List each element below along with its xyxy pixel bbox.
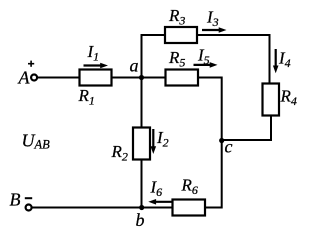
node b: [136, 205, 145, 230]
current arrow I3: [202, 8, 227, 33]
node c: [219, 137, 232, 157]
node a: [130, 56, 145, 81]
current arrow I2: [151, 128, 169, 154]
svg-text:R1: R1: [78, 86, 95, 108]
wire top rail left segment: [141, 34, 165, 36]
svg-text:c: c: [225, 137, 233, 157]
wire B to R6 through node b: [32, 207, 173, 209]
svg-text:I4: I4: [278, 49, 291, 71]
current arrow I5: [194, 46, 218, 68]
resistor R5: [166, 48, 199, 86]
svg-text:a: a: [130, 56, 139, 76]
resistor R4: [263, 84, 297, 116]
svg-text:I5: I5: [197, 46, 210, 68]
svg-text:I3: I3: [206, 8, 219, 30]
svg-text:UAB: UAB: [22, 130, 51, 151]
svg-text:B: B: [10, 190, 21, 210]
svg-text:I2: I2: [156, 128, 169, 150]
svg-text:R5: R5: [168, 48, 185, 70]
resistor R1: [78, 70, 112, 108]
svg-text:R4: R4: [280, 87, 297, 109]
wire A to R1: [37, 77, 79, 79]
resistor R2: [111, 128, 151, 164]
svg-text:R2: R2: [111, 142, 128, 164]
wire R5 right down through node c to bottom rail into R6: [198, 78, 222, 208]
terminal B: [10, 190, 33, 211]
current arrow I1: [84, 42, 109, 68]
svg-text:I6: I6: [150, 178, 163, 200]
wire node a up to top rail and down to R2: [141, 34, 143, 127]
svg-text:R3: R3: [168, 6, 185, 28]
wire R4 bottom to node c: [223, 116, 271, 141]
wire R1 to R5 through node a: [112, 77, 166, 79]
current arrow I4: [273, 49, 291, 74]
svg-text:b: b: [136, 210, 145, 230]
terminal A: [18, 61, 38, 88]
resistor R6: [173, 176, 206, 216]
svg-text:A: A: [18, 68, 31, 88]
wire top rail right segment down to R4: [197, 35, 270, 84]
svg-text:R6: R6: [181, 176, 198, 198]
resistor R3: [165, 6, 197, 43]
wire R2 bottom to node b: [141, 160, 143, 208]
current arrow I6: [148, 178, 172, 205]
svg-text:I1: I1: [87, 42, 100, 64]
